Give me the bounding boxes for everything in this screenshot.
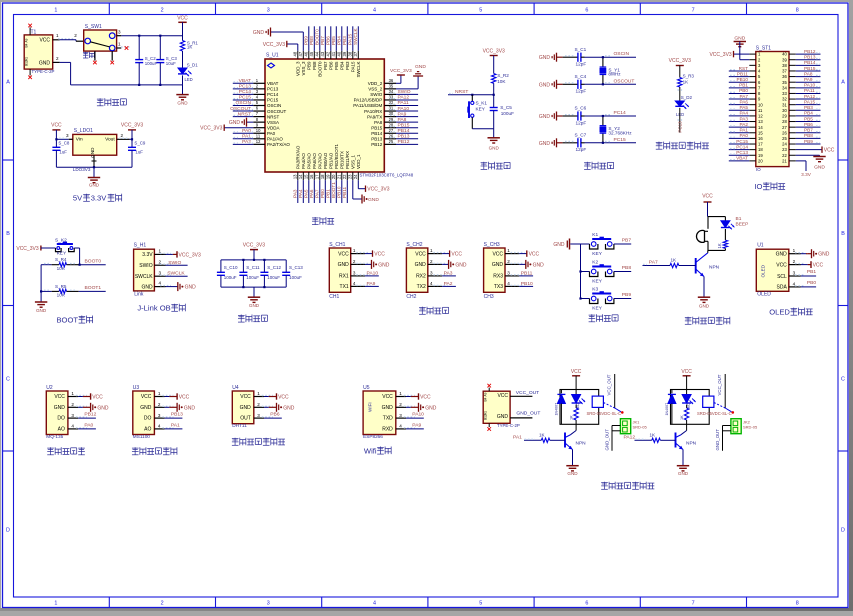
svg-text:10K: 10K [57,293,66,298]
svg-text:GND: GND [39,60,51,66]
svg-text:U4: U4 [232,385,239,391]
svg-text:11: 11 [758,108,763,113]
svg-text:100uF: 100uF [145,61,158,66]
svg-text:GND: GND [382,405,394,411]
svg-text:24: 24 [353,174,358,179]
svg-text:VCC_OUT: VCC_OUT [516,390,539,396]
svg-text:VCC_3V3: VCC_3V3 [179,252,201,258]
svg-text:KEY: KEY [476,106,486,111]
svg-text:B: B [6,231,10,237]
svg-text:VCC: VCC [702,194,713,200]
svg-text:44: 44 [315,51,320,56]
svg-text:PA6: PA6 [739,99,748,104]
svg-text:A9: A9 [25,38,29,42]
svg-text:PA9: PA9 [398,111,407,117]
svg-text:1K: 1K [680,415,684,420]
svg-text:PA2/TX/AO: PA2/TX/AO [267,142,290,147]
svg-text:NPN: NPN [576,441,587,447]
svg-text:PA5/AO: PA5/AO [306,153,311,169]
svg-text:NRST: NRST [238,111,251,117]
svg-text:1: 1 [158,391,161,396]
svg-text:VCC_3V3: VCC_3V3 [390,68,412,74]
svg-text:U2: U2 [46,385,53,391]
svg-text:PB15: PB15 [371,125,383,130]
svg-text:K2: K2 [592,260,598,266]
svg-text:100uF: 100uF [224,275,237,280]
svg-text:NPN: NPN [686,441,697,447]
svg-text:PA11: PA11 [804,88,815,93]
svg-text:MQ-135: MQ-135 [46,434,63,439]
svg-text:1K: 1K [671,257,678,262]
svg-text:36: 36 [389,78,394,83]
svg-text:3: 3 [430,270,433,275]
svg-text:7: 7 [692,7,695,13]
svg-text:35: 35 [389,83,394,88]
svg-text:TX2: TX2 [417,284,426,290]
svg-text:VDDA: VDDA [267,125,280,130]
svg-text:23: 23 [348,174,353,179]
svg-text:5: 5 [479,600,482,606]
svg-text:BOOT0: BOOT0 [314,29,319,45]
svg-text:22: 22 [342,174,347,179]
svg-text:1K: 1K [539,433,546,438]
svg-text:GND_OUT: GND_OUT [516,411,540,417]
svg-text:PB13: PB13 [398,134,410,140]
svg-text:15: 15 [758,130,763,135]
svg-text:Link: Link [134,292,144,298]
svg-text:GND: GND [184,405,196,411]
svg-text:PB0/AO: PB0/AO [323,152,328,169]
svg-text:AO: AO [144,427,151,433]
svg-text:PB0: PB0 [320,189,325,198]
svg-text:VBAT: VBAT [736,156,748,161]
svg-text:3: 3 [66,133,69,138]
svg-text:GND: GND [539,114,551,120]
svg-text:8MHz: 8MHz [608,72,621,77]
svg-text:VSS_3: VSS_3 [301,61,306,76]
svg-text:47: 47 [298,51,303,56]
svg-text:VCC_3V3: VCC_3V3 [263,42,285,48]
svg-text:PA8: PA8 [374,120,383,125]
svg-text:34: 34 [782,85,787,90]
svg-text:VSS_2: VSS_2 [368,87,383,92]
svg-text:21: 21 [782,158,787,163]
svg-text:VCC_3V3: VCC_3V3 [367,187,389,193]
svg-text:SRD-05VDC-SL-C: SRD-05VDC-SL-C [697,411,732,416]
svg-text:S_C8: S_C8 [58,141,70,146]
svg-text:S_K2: S_K2 [55,237,67,243]
svg-text:4: 4 [373,600,376,606]
svg-text:PB1/AO: PB1/AO [328,152,333,169]
svg-text:39: 39 [782,57,787,62]
svg-text:PA7: PA7 [739,94,748,99]
svg-text:A: A [6,80,10,86]
svg-text:S_LDO1: S_LDO1 [74,128,93,134]
svg-text:IO: IO [754,182,762,191]
svg-text:2: 2 [430,259,433,264]
svg-text:S_SW1: S_SW1 [85,24,102,30]
svg-text:D: D [841,527,845,533]
svg-text:10K: 10K [497,79,506,84]
svg-text:B4: B4 [25,43,29,47]
svg-text:VCC: VCC [278,394,289,400]
svg-text:PA4: PA4 [739,111,748,116]
svg-text:GND: GND [533,262,545,268]
svg-text:VCC: VCC [813,262,824,268]
svg-text:PC13: PC13 [736,150,748,155]
svg-text:S_C5: S_C5 [500,105,512,110]
svg-text:VBAT: VBAT [239,78,251,84]
svg-text:B4: B4 [484,397,488,401]
svg-text:GND: GND [492,262,504,268]
svg-text:GND: GND [185,285,197,291]
svg-text:B1: B1 [736,216,742,222]
svg-text:GND: GND [141,284,153,290]
svg-text:1: 1 [399,391,402,396]
svg-text:GND: GND [253,30,265,36]
svg-text:PC13: PC13 [267,87,279,92]
svg-text:4: 4 [71,424,74,429]
svg-text:GND: GND [539,141,551,147]
svg-text:GND: GND [818,252,830,258]
svg-text:PB5: PB5 [331,36,336,45]
svg-text:OSCOUT: OSCOUT [230,106,251,112]
svg-text:PB15: PB15 [804,66,816,71]
svg-text:RX1: RX1 [339,274,349,280]
svg-text:38: 38 [348,51,353,56]
svg-text:PA15: PA15 [804,99,816,104]
svg-text:PB5: PB5 [804,116,813,121]
svg-text:PA1: PA1 [739,128,748,133]
svg-text:VCC: VCC [374,252,385,258]
svg-text:2: 2 [399,402,402,407]
svg-text:GND: GND [553,242,565,248]
svg-text:10: 10 [758,102,763,107]
svg-text:32: 32 [782,97,787,102]
svg-text:35: 35 [782,80,787,85]
svg-text:S_C12: S_C12 [267,265,281,270]
svg-text:PB9: PB9 [804,139,813,144]
svg-text:PB6: PB6 [804,122,813,127]
svg-text:RX3: RX3 [493,274,503,280]
svg-text:PA10: PA10 [367,270,379,276]
svg-text:B12: B12 [484,414,488,420]
svg-text:PA12: PA12 [624,435,636,441]
svg-text:PB7: PB7 [323,61,328,70]
svg-text:VCC_3V3: VCC_3V3 [121,122,143,128]
svg-text:KEY: KEY [592,279,602,285]
svg-text:SWIO: SWIO [370,92,382,97]
svg-text:GND: GND [699,304,710,309]
svg-text:PB11: PB11 [342,186,347,198]
svg-text:12pF: 12pF [576,120,587,125]
svg-text:GND_OUT: GND_OUT [715,429,720,451]
svg-text:1uF: 1uF [135,150,143,155]
svg-text:S_H1: S_H1 [134,243,147,249]
svg-text:A: A [841,80,845,86]
svg-text:PB4: PB4 [804,111,813,116]
svg-text:29: 29 [782,114,787,119]
svg-text:16: 16 [309,174,314,179]
svg-text:PA4/AO: PA4/AO [301,153,306,169]
svg-text:14: 14 [758,125,763,130]
svg-text:WIFI: WIFI [368,402,373,412]
svg-text:100uF: 100uF [246,275,259,280]
svg-text:VDD_3: VDD_3 [295,61,300,76]
svg-text:12pF: 12pF [576,147,587,152]
svg-text:GND: GND [229,120,241,126]
svg-text:A9: A9 [484,392,488,396]
svg-text:PB12: PB12 [398,139,410,145]
svg-text:1: 1 [71,391,74,396]
svg-text:16: 16 [758,136,763,141]
svg-text:13: 13 [758,119,763,124]
svg-text:PB10: PB10 [737,77,749,82]
svg-text:GND: GND [415,64,426,70]
svg-text:S_C11: S_C11 [246,265,260,270]
svg-text:12: 12 [758,114,763,119]
svg-text:SWCLK: SWCLK [353,27,358,45]
svg-text:S_CH3: S_CH3 [484,242,500,248]
svg-text:VCC: VCC [39,38,50,44]
svg-text:PA1: PA1 [513,435,522,441]
svg-text:PB2/BOOT1: PB2/BOOT1 [334,143,339,169]
svg-text:PA1: PA1 [242,134,251,140]
svg-text:VCC: VCC [420,394,431,400]
svg-text:15: 15 [304,174,309,179]
svg-text:PA3: PA3 [292,189,297,198]
svg-text:3.3V: 3.3V [142,252,153,258]
svg-text:33: 33 [782,91,787,96]
svg-text:GND: GND [734,35,745,41]
svg-text:VCC: VCC [681,369,692,375]
svg-text:BOOT1: BOOT1 [85,285,102,291]
svg-text:PC15: PC15 [736,139,748,144]
svg-text:AO: AO [58,427,65,433]
svg-text:CH1: CH1 [329,294,339,300]
svg-text:PB6: PB6 [328,61,333,70]
svg-text:VCC: VCC [179,394,190,400]
svg-text:40: 40 [782,52,787,57]
svg-text:5: 5 [479,7,482,13]
svg-text:PA10: PA10 [804,83,816,88]
svg-text:PA3/RX/AO: PA3/RX/AO [295,145,300,169]
svg-text:VCC: VCC [141,394,152,400]
svg-text:DO: DO [144,416,152,422]
svg-text:VSS_1: VSS_1 [350,154,355,169]
svg-text:30: 30 [782,108,787,113]
svg-text:17: 17 [315,174,320,179]
svg-text:4: 4 [507,281,510,286]
svg-text:2: 2 [161,7,164,13]
svg-text:S_ST1: S_ST1 [756,45,772,51]
svg-text:1: 1 [54,600,57,606]
svg-text:OUT: OUT [240,416,251,422]
svg-text:PA6/AO: PA6/AO [312,153,317,169]
svg-text:1K: 1K [187,44,192,49]
svg-text:TYPE-C-2P: TYPE-C-2P [32,69,55,74]
svg-text:43: 43 [320,51,325,56]
svg-text:PA11: PA11 [398,100,410,106]
svg-text:6: 6 [585,600,588,606]
svg-text:PB3: PB3 [804,105,813,110]
svg-text:VCC: VCC [529,252,540,258]
svg-text:PA7: PA7 [314,189,319,198]
svg-text:GND: GND [283,405,295,411]
svg-text:OSCIN: OSCIN [614,51,630,57]
svg-text:TXD: TXD [383,416,393,422]
svg-text:PB8: PB8 [309,36,314,45]
svg-text:K1: K1 [592,232,598,238]
svg-text:PA10: PA10 [398,106,410,112]
svg-text:GND: GND [776,252,788,258]
svg-text:KEY: KEY [592,251,602,257]
svg-text:VCC: VCC [92,394,103,400]
svg-text:PA12: PA12 [398,95,410,101]
svg-text:32.768KHz: 32.768KHz [608,130,632,135]
svg-text:PA9: PA9 [367,281,376,287]
svg-text:41: 41 [331,51,336,56]
svg-text:31: 31 [782,102,787,107]
svg-text:19: 19 [326,174,331,179]
svg-text:PA2: PA2 [242,139,251,145]
svg-text:SWIO: SWIO [398,89,411,95]
svg-text:37: 37 [782,69,787,74]
svg-text:GND: GND [97,405,109,411]
svg-text:48: 48 [293,51,298,56]
svg-text:PB14: PB14 [371,131,383,136]
svg-text:VCC_OUT: VCC_OUT [717,374,722,395]
svg-text:RXD: RXD [382,427,393,433]
svg-text:2: 2 [56,56,59,61]
svg-text:S_R3: S_R3 [683,74,695,79]
svg-text:28: 28 [782,119,787,124]
svg-text:IO: IO [756,167,761,172]
svg-text:PA9: PA9 [412,423,421,429]
svg-text:OLED: OLED [761,264,766,277]
svg-text:3: 3 [267,7,270,13]
svg-text:PC15: PC15 [239,95,252,101]
svg-text:GND: GND [177,100,188,105]
svg-text:VCC: VCC [382,394,393,400]
svg-text:GND: GND [54,405,66,411]
svg-text:PB7: PB7 [622,237,632,243]
svg-text:SRD-05: SRD-05 [633,425,648,430]
svg-text:PB4: PB4 [339,61,344,70]
svg-text:PC15: PC15 [267,98,279,103]
svg-text:PB11/RX: PB11/RX [345,151,350,169]
svg-text:3.3V: 3.3V [91,194,108,203]
svg-text:NRST: NRST [267,114,280,119]
svg-text:PA10: PA10 [412,412,424,418]
svg-text:8: 8 [796,7,799,13]
svg-text:PB6: PB6 [270,412,280,418]
svg-text:S_C4: S_C4 [575,74,587,79]
svg-text:1: 1 [56,33,59,38]
svg-text:PA3: PA3 [739,116,748,121]
svg-text:SWIO: SWIO [139,263,152,269]
svg-text:3: 3 [71,413,74,418]
svg-text:PA2: PA2 [739,122,748,127]
svg-text:12pF: 12pF [576,89,587,94]
svg-text:U5: U5 [363,385,370,391]
svg-text:2: 2 [353,259,356,264]
svg-text:12pF: 12pF [576,62,587,67]
svg-text:42: 42 [326,51,331,56]
svg-text:1: 1 [507,248,510,253]
svg-text:VCC: VCC [497,393,508,399]
svg-text:46: 46 [304,51,309,56]
svg-text:VCC: VCC [240,394,251,400]
svg-text:VCC_3V3: VCC_3V3 [483,49,505,55]
svg-text:VBAT: VBAT [267,81,279,86]
svg-text:4: 4 [399,424,402,429]
svg-text:PB8: PB8 [804,133,813,138]
svg-text:NPN: NPN [709,264,720,270]
svg-text:GND: GND [36,308,47,313]
svg-text:GND: GND [415,262,427,268]
svg-text:GND: GND [539,55,551,61]
svg-text:PB13: PB13 [171,412,183,418]
svg-text:36: 36 [782,74,787,79]
svg-text:PA15: PA15 [347,33,352,45]
svg-text:PB1: PB1 [325,189,330,198]
svg-text:PA11/USB/DM: PA11/USB/DM [353,103,382,108]
svg-text:GND: GND [497,414,509,420]
svg-text:VCC: VCC [415,251,426,257]
svg-text:2: 2 [507,259,510,264]
svg-text:GND: GND [539,82,551,88]
svg-text:PA15: PA15 [350,61,355,72]
svg-text:3: 3 [267,600,270,606]
svg-text:1N4007: 1N4007 [665,403,669,416]
svg-text:PA1/AO: PA1/AO [267,137,283,142]
svg-text:VCC_OUT: VCC_OUT [607,374,612,395]
svg-text:3: 3 [353,270,356,275]
svg-text:S_CH1: S_CH1 [329,242,345,248]
svg-text:PB10/TX: PB10/TX [339,151,344,169]
svg-text:PB7: PB7 [804,128,813,133]
svg-text:SWCLK: SWCLK [167,270,185,276]
svg-text:K3: K3 [592,287,598,293]
svg-text:PB11: PB11 [737,71,749,76]
svg-text:10uF: 10uF [166,61,176,66]
svg-text:VCC: VCC [776,262,787,268]
svg-text:PB13: PB13 [804,55,816,60]
svg-text:GND: GND [140,405,152,411]
svg-text:PA7: PA7 [649,260,658,266]
svg-text:NRST: NRST [455,89,468,95]
svg-text:PA10/RX: PA10/RX [364,109,382,114]
svg-text:3: 3 [118,29,121,34]
svg-text:TX3: TX3 [494,284,503,290]
svg-text:SRD-05: SRD-05 [743,425,758,430]
svg-text:VCC: VCC [177,15,188,21]
svg-text:100uF: 100uF [267,275,280,280]
svg-text:PB4: PB4 [336,36,341,45]
svg-text:3: 3 [507,270,510,275]
svg-text:GND: GND [567,471,578,476]
svg-text:S_CH2: S_CH2 [406,242,422,248]
svg-text:1: 1 [54,7,57,13]
svg-text:GND: GND [678,471,689,476]
svg-text:4: 4 [430,281,433,286]
svg-text:100uF: 100uF [289,275,302,280]
svg-text:BOOT: BOOT [56,315,78,324]
svg-text:8: 8 [796,600,799,606]
svg-text:PB1: PB1 [807,269,817,275]
svg-text:3.3V: 3.3V [801,172,812,177]
